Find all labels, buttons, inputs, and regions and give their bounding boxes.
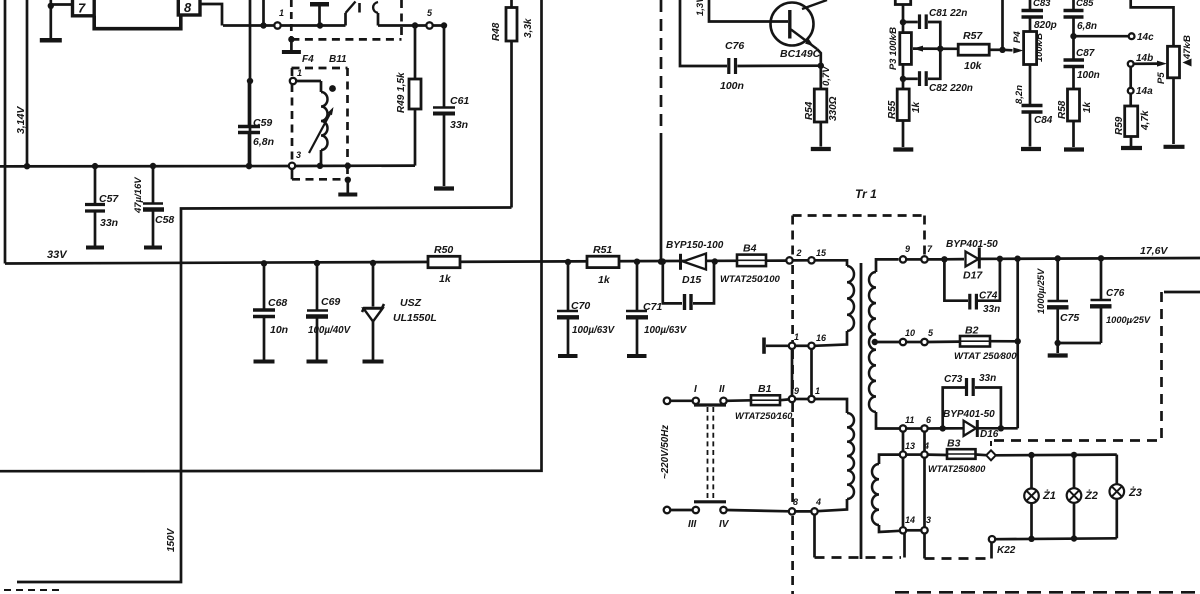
svg-text:C57: C57 [99, 193, 119, 205]
svg-text:100µ/40V: 100µ/40V [308, 325, 352, 336]
svg-text:8: 8 [793, 497, 798, 507]
svg-text:3,14V: 3,14V [15, 106, 27, 134]
svg-text:1000µ/25V: 1000µ/25V [1036, 268, 1046, 314]
svg-text:R54: R54 [804, 101, 815, 120]
svg-text:14c: 14c [1137, 32, 1154, 43]
svg-text:C59: C59 [253, 117, 272, 129]
svg-text:150V: 150V [166, 527, 177, 552]
svg-text:10n: 10n [270, 324, 288, 336]
svg-text:C87: C87 [1076, 48, 1095, 59]
svg-text:BC149C: BC149C [780, 48, 821, 60]
svg-text:C82 220n: C82 220n [929, 83, 973, 94]
svg-text:Tr 1: Tr 1 [855, 187, 877, 201]
svg-text:1,3V: 1,3V [695, 0, 706, 16]
svg-text:820p: 820p [1034, 20, 1057, 31]
svg-text:WTAT250⁄160: WTAT250⁄160 [735, 411, 793, 421]
svg-text:C84: C84 [1034, 115, 1053, 126]
svg-text:~220V/50Hz: ~220V/50Hz [660, 425, 671, 479]
svg-text:R51: R51 [593, 244, 612, 256]
svg-text:BYP401-50: BYP401-50 [946, 239, 998, 250]
svg-text:9: 9 [905, 244, 910, 254]
svg-text:WTAT250⁄800: WTAT250⁄800 [928, 464, 986, 474]
svg-text:R57: R57 [963, 30, 983, 42]
svg-text:9: 9 [794, 386, 799, 396]
svg-text:100µ/63V: 100µ/63V [644, 325, 688, 336]
svg-text:1: 1 [815, 386, 820, 396]
svg-text:C74: C74 [979, 291, 998, 302]
svg-text:33n: 33n [450, 119, 468, 131]
svg-text:B11: B11 [329, 54, 347, 65]
svg-text:1k: 1k [1082, 101, 1093, 113]
svg-text:47µ/16V: 47µ/16V [133, 177, 144, 214]
svg-text:11: 11 [905, 415, 914, 425]
svg-text:C68: C68 [268, 297, 287, 309]
svg-text:P5: P5 [1156, 72, 1167, 84]
svg-text:3,3k: 3,3k [523, 18, 534, 38]
svg-text:33n: 33n [100, 217, 118, 229]
svg-text:4: 4 [923, 441, 929, 451]
svg-text:C81 22n: C81 22n [929, 8, 967, 19]
svg-text:7: 7 [78, 1, 86, 16]
svg-text:10k: 10k [964, 60, 983, 72]
svg-text:C83: C83 [1033, 0, 1051, 9]
svg-text:P3 100k⁄B: P3 100k⁄B [888, 27, 898, 70]
svg-text:100µ/63V: 100µ/63V [572, 325, 616, 336]
svg-text:WTAT250⁄100: WTAT250⁄100 [720, 274, 781, 285]
svg-text:R49 1,5k: R49 1,5k [396, 72, 407, 113]
svg-text:IV: IV [719, 519, 730, 530]
svg-text:P4: P4 [1012, 31, 1023, 43]
svg-text:1000µ⁄25V: 1000µ⁄25V [1106, 315, 1151, 325]
svg-text:C73: C73 [944, 374, 963, 385]
svg-text:C58: C58 [155, 214, 174, 226]
svg-text:C70: C70 [571, 300, 590, 312]
svg-text:100n: 100n [720, 80, 744, 92]
svg-text:3: 3 [926, 515, 931, 525]
svg-text:1k: 1k [598, 274, 611, 286]
svg-text:WTAT 250⁄800: WTAT 250⁄800 [954, 351, 1017, 362]
svg-text:16: 16 [816, 333, 827, 343]
svg-text:USZ: USZ [400, 297, 422, 309]
svg-text:8: 8 [184, 0, 192, 15]
svg-text:K22: K22 [997, 545, 1016, 556]
svg-text:17,6V: 17,6V [1140, 245, 1168, 257]
svg-text:330Ω: 330Ω [828, 96, 839, 121]
svg-text:6,8n: 6,8n [253, 136, 274, 148]
svg-text:10: 10 [905, 328, 915, 338]
svg-text:I: I [694, 384, 697, 395]
svg-text:1k: 1k [439, 273, 452, 285]
svg-text:C61: C61 [450, 95, 469, 107]
svg-text:B4: B4 [743, 243, 757, 255]
svg-text:4: 4 [815, 497, 821, 507]
svg-text:BYP150-100: BYP150-100 [666, 240, 724, 251]
svg-text:III: III [688, 519, 697, 530]
svg-text:C76: C76 [1106, 288, 1125, 299]
svg-text:1: 1 [297, 68, 302, 78]
svg-text:D15: D15 [682, 274, 701, 286]
svg-text:C85: C85 [1076, 0, 1094, 9]
svg-text:R48: R48 [491, 22, 502, 41]
svg-text:Ż2: Ż2 [1084, 489, 1098, 502]
svg-text:1: 1 [279, 8, 284, 18]
svg-text:R50: R50 [434, 244, 453, 256]
svg-text:47k⁄B: 47k⁄B [1182, 35, 1192, 60]
svg-text:C75: C75 [1060, 312, 1079, 324]
svg-text:C71: C71 [643, 301, 662, 313]
svg-text:D16: D16 [980, 429, 999, 440]
svg-text:15: 15 [816, 248, 827, 258]
svg-text:Ż1: Ż1 [1042, 489, 1056, 502]
svg-text:0,7V: 0,7V [821, 66, 832, 86]
svg-text:R55: R55 [887, 100, 898, 119]
svg-text:4,7k: 4,7k [1140, 110, 1151, 131]
svg-text:14: 14 [905, 515, 915, 525]
svg-text:D17: D17 [963, 270, 983, 282]
svg-text:R59: R59 [1114, 116, 1125, 135]
svg-text:33n: 33n [979, 373, 996, 384]
svg-text:33n: 33n [983, 304, 1000, 315]
svg-text:Ż3: Ż3 [1128, 486, 1142, 499]
svg-text:3: 3 [296, 150, 301, 160]
svg-text:II: II [719, 384, 725, 395]
svg-text:100k⁄B: 100k⁄B [1034, 33, 1044, 62]
svg-text:C69: C69 [321, 296, 340, 308]
svg-text:1: 1 [794, 332, 799, 342]
svg-text:C76: C76 [725, 40, 744, 52]
svg-text:R58: R58 [1057, 100, 1068, 119]
svg-text:F4: F4 [302, 54, 314, 65]
svg-text:BYP401-50: BYP401-50 [943, 409, 995, 420]
svg-text:2: 2 [796, 248, 802, 258]
svg-text:B3: B3 [947, 438, 961, 450]
svg-text:UL1550L: UL1550L [393, 312, 437, 324]
svg-text:1k: 1k [911, 101, 922, 113]
svg-text:B2: B2 [965, 325, 979, 337]
svg-text:B1: B1 [758, 383, 772, 395]
svg-text:6,8n: 6,8n [1077, 21, 1097, 32]
svg-text:8,2n: 8,2n [1014, 85, 1025, 104]
svg-text:14a: 14a [1136, 86, 1153, 97]
svg-text:33V: 33V [47, 249, 68, 261]
svg-text:13: 13 [905, 441, 915, 451]
svg-text:100n: 100n [1077, 70, 1100, 81]
